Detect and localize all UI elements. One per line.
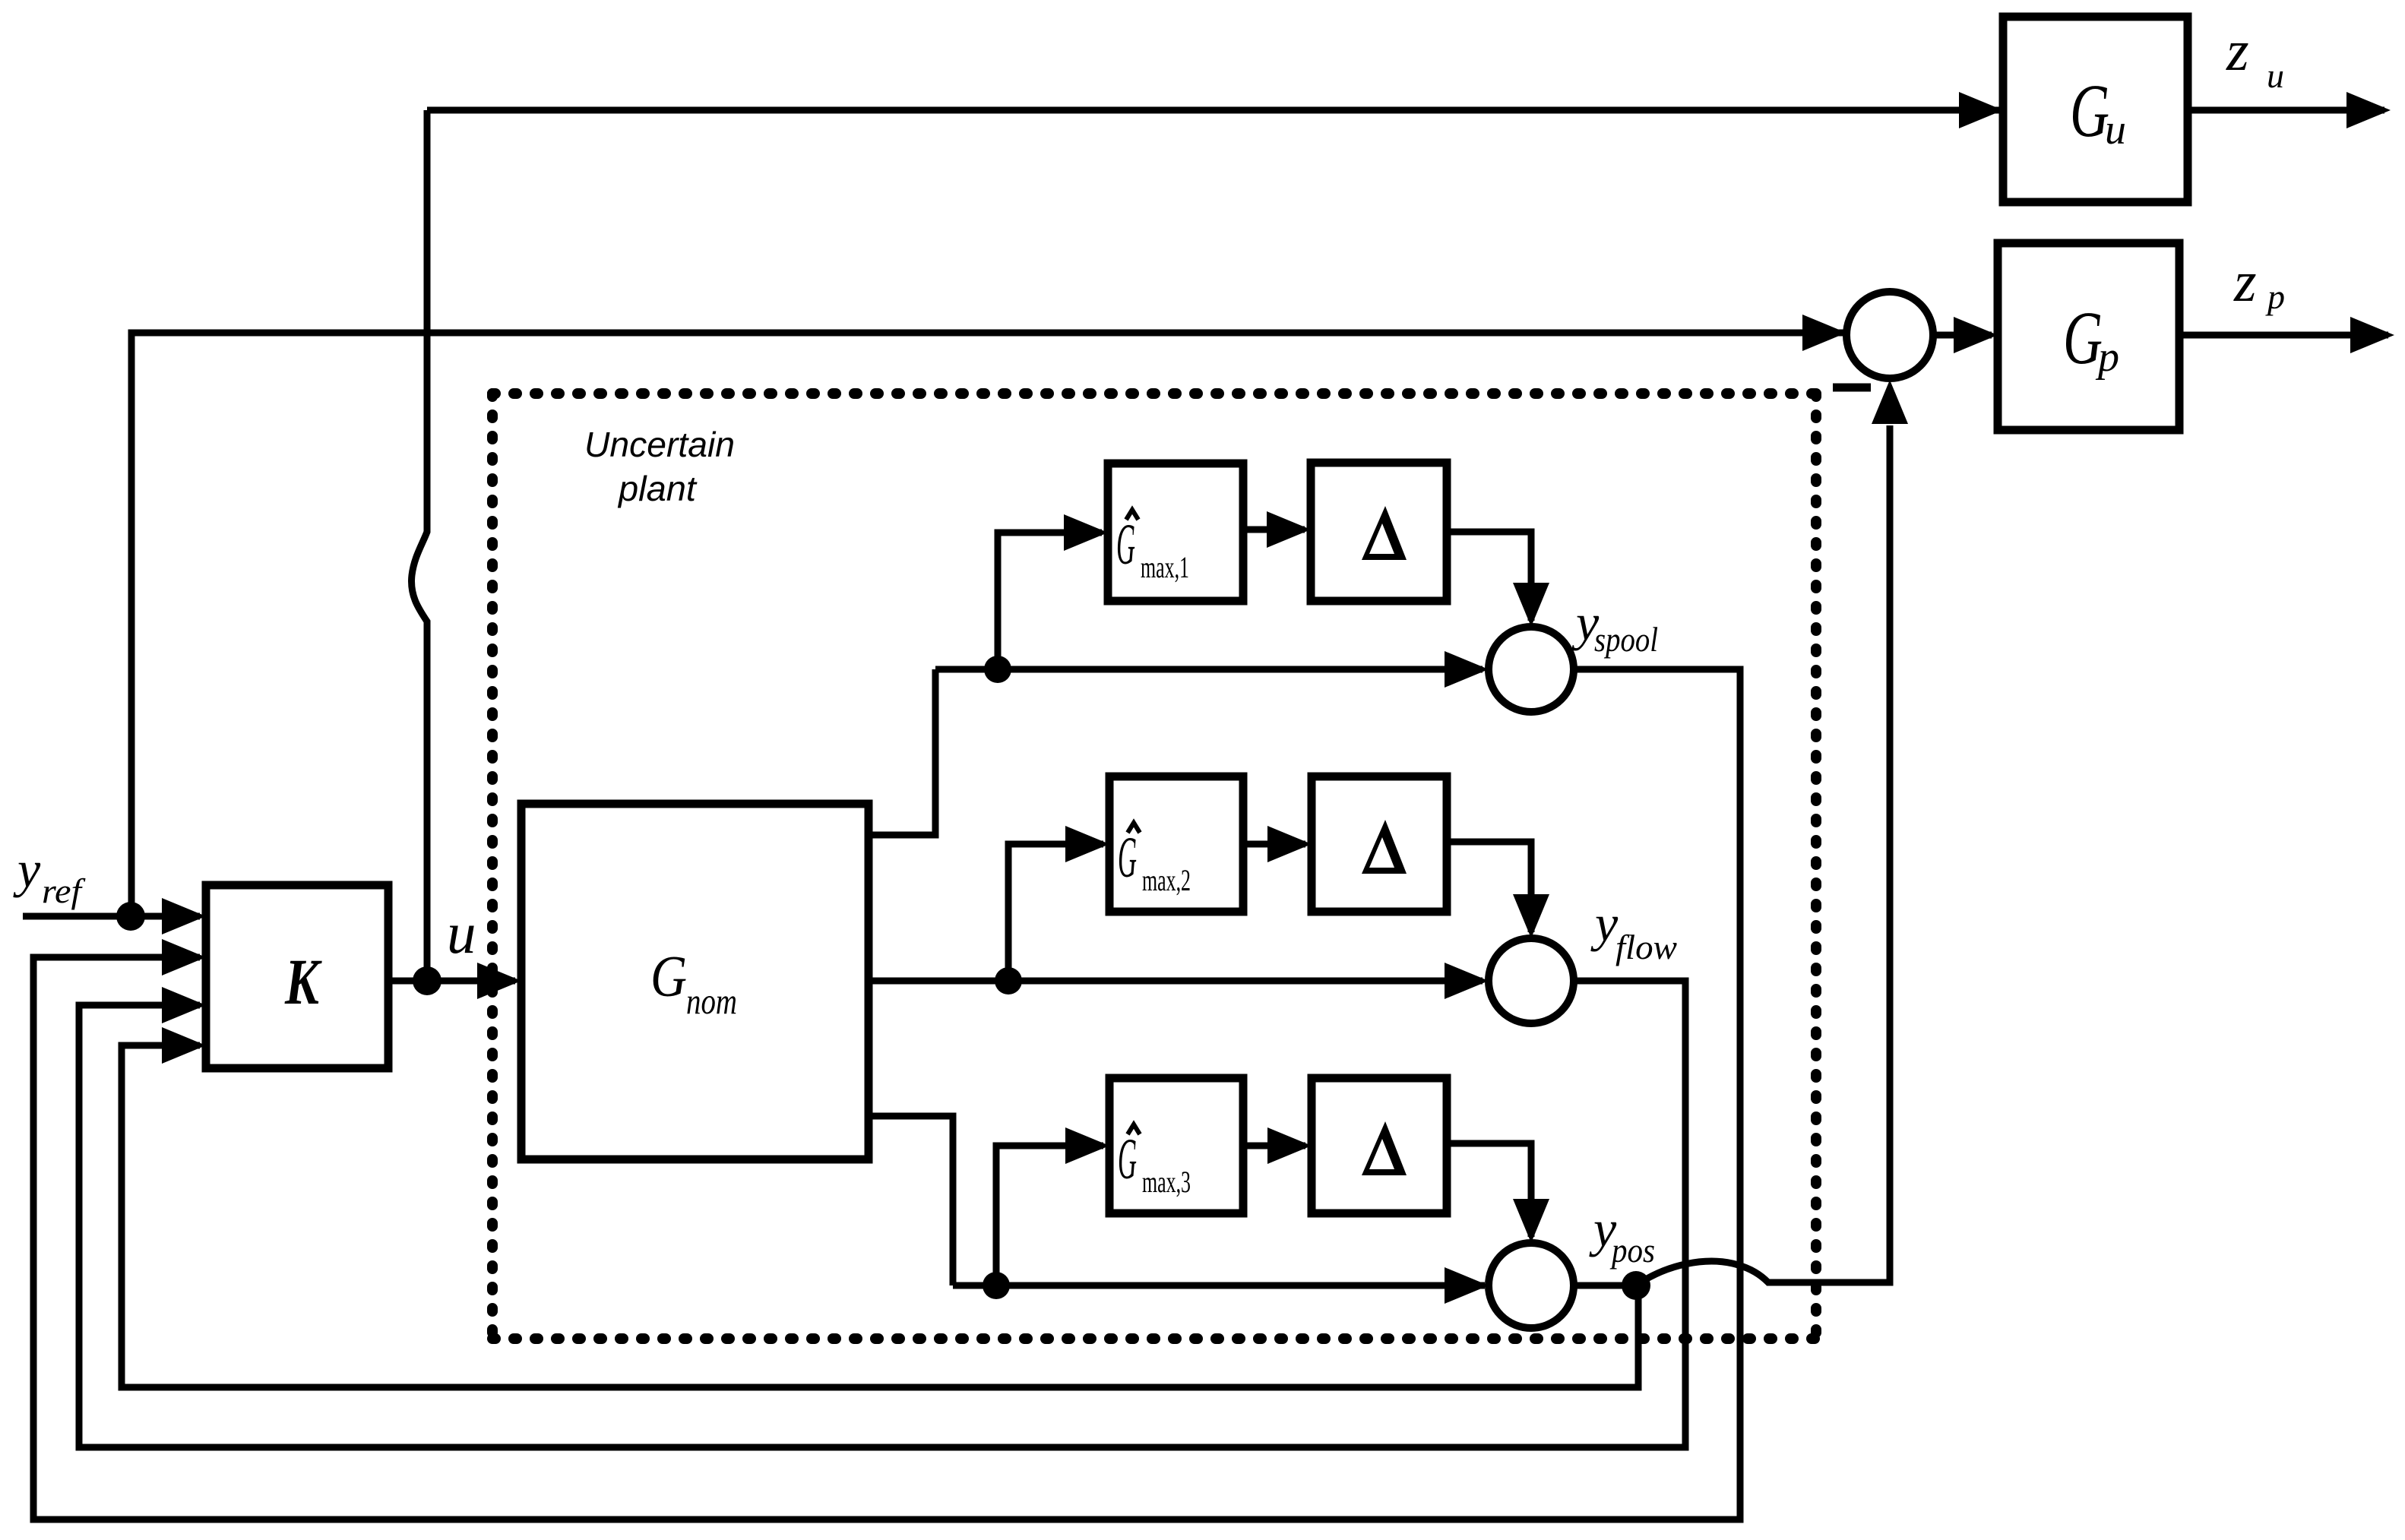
wire: branch3 split to Gmax3: [996, 1146, 1103, 1285]
arrow into Delta3: [1267, 1127, 1312, 1164]
wire: branch2 split to Gmax2: [1008, 844, 1103, 981]
svg-text:G: G: [2070, 68, 2109, 153]
wire: Gu output zu: [2188, 107, 2384, 114]
label Delta3: [1362, 1121, 1407, 1175]
arrow into minus sum bottom: [1872, 380, 1908, 424]
dot ypos out: [1622, 1271, 1650, 1300]
block Gnom: [521, 804, 869, 1159]
svg-text:spool: spool: [1594, 620, 1658, 659]
wire: branch1 split to Gmax1: [998, 533, 1102, 669]
label Delta1: [1362, 506, 1407, 560]
arrow into yflow top: [1513, 894, 1549, 938]
block Gmax3: [1109, 1078, 1243, 1213]
dot u: [413, 966, 441, 995]
arrow into Gu: [1959, 92, 2003, 128]
svg-text:u: u: [2267, 56, 2284, 95]
block Gu: [2003, 17, 2188, 202]
arrow K input3: [162, 987, 206, 1023]
svg-text:y: y: [1590, 894, 1619, 952]
arrow K input2: [162, 939, 206, 976]
block K: [206, 885, 388, 1068]
svg-text:G: G: [1116, 513, 1135, 577]
wire: minus sum to Gp: [1933, 332, 1992, 339]
summation circles: [1489, 292, 1933, 1328]
block Delta2: [1312, 776, 1447, 912]
svg-text:G: G: [1118, 826, 1137, 890]
wire: Delta2 out to yflow top: [1447, 842, 1531, 932]
wire: Gmax2 to Delta2: [1243, 841, 1305, 848]
wire: yref riser long line to minus sum: [131, 333, 1843, 916]
dot branch2: [995, 967, 1022, 995]
wire: Delta3 out to ypos top: [1447, 1143, 1531, 1237]
arrow zp out: [2350, 317, 2394, 353]
wire: K output u: [388, 978, 515, 985]
dot branch3: [983, 1272, 1010, 1299]
dot branch1: [984, 656, 1011, 683]
wire: Gnom bottom output to ypos: [869, 1116, 1485, 1285]
wire: ypos curve hop to minus sum riser: [1636, 425, 1890, 1285]
svg-text:y: y: [13, 840, 41, 898]
arrow zu out: [2346, 92, 2391, 128]
sum yspool: [1489, 627, 1574, 712]
wire: u to Gu top line: [427, 107, 2000, 114]
svg-text:max,3: max,3: [1142, 1165, 1191, 1199]
arrow into Gnom: [477, 963, 521, 999]
dot yref: [116, 902, 145, 931]
arrow into Gp: [1954, 317, 1998, 353]
arrow into ypos left: [1445, 1267, 1489, 1304]
block Gmax2: [1109, 776, 1243, 912]
arrow into Delta2: [1267, 826, 1312, 862]
boxes: [206, 17, 2188, 1213]
arrow into ypos top: [1513, 1199, 1549, 1243]
svg-text:Uncertain: Uncertain: [584, 425, 735, 464]
arrow into Gmax1: [1064, 514, 1108, 551]
arrow into yflow left: [1445, 963, 1489, 999]
sum minus circle: [1846, 292, 1933, 378]
svg-text:G: G: [650, 944, 687, 1009]
svg-text:z: z: [2233, 250, 2257, 314]
wire: feedback yspool to K input2: [33, 669, 1740, 1519]
svg-text:plant: plant: [617, 469, 698, 508]
sum ypos: [1489, 1243, 1574, 1328]
arrow into minus sum left: [1802, 315, 1846, 351]
wire: feedback ypos to K input4: [122, 1045, 1638, 1387]
svg-text:p: p: [2265, 277, 2285, 316]
svg-text:max,1: max,1: [1141, 550, 1189, 584]
wire: Gnom middle output to yflow: [869, 978, 1483, 985]
arrow into yspool top: [1513, 583, 1549, 627]
minus sign: [1833, 384, 1871, 392]
svg-text:nom: nom: [686, 980, 737, 1022]
svg-text:max,2: max,2: [1142, 863, 1191, 897]
arrow K input1: [162, 898, 206, 934]
wire: yref input: [23, 913, 200, 920]
svg-text:ref: ref: [42, 871, 87, 910]
block Delta3: [1312, 1078, 1447, 1213]
wire: Gmax1 to Delta1: [1243, 527, 1305, 533]
wire: Gnom top output to yspool: [869, 669, 1483, 835]
block Delta1: [1311, 463, 1447, 601]
wire: vertical u riser with hop: [412, 110, 427, 981]
svg-text:z: z: [2226, 19, 2249, 83]
dashed uncertain plant box: [492, 394, 1816, 1339]
svg-text:flow: flow: [1615, 928, 1677, 966]
arrow into yspool left: [1445, 651, 1489, 688]
sum yflow: [1489, 938, 1574, 1023]
arrowheads: [162, 92, 2394, 1304]
block Gmax1: [1108, 463, 1243, 601]
arrow into Delta1: [1267, 511, 1311, 548]
svg-text:G: G: [1118, 1127, 1137, 1191]
arrow into Gmax2: [1065, 826, 1109, 862]
label Delta2: [1362, 820, 1407, 874]
wire: Gmax3 to Delta3: [1243, 1143, 1305, 1149]
wire: Delta1 out to yspool top: [1447, 532, 1531, 621]
svg-text:G: G: [2063, 296, 2103, 380]
svg-text:pos: pos: [1609, 1231, 1655, 1270]
svg-text:K: K: [284, 945, 322, 1018]
arrow K input4: [162, 1027, 206, 1064]
svg-text:u: u: [447, 900, 476, 966]
wire: feedback yflow to K input3: [79, 981, 1685, 1447]
svg-text:u: u: [2105, 106, 2126, 153]
wire: Gp output zp: [2179, 332, 2388, 339]
block Gp: [1998, 243, 2179, 430]
arrow into Gmax3: [1065, 1127, 1109, 1164]
svg-text:p: p: [2095, 334, 2119, 381]
